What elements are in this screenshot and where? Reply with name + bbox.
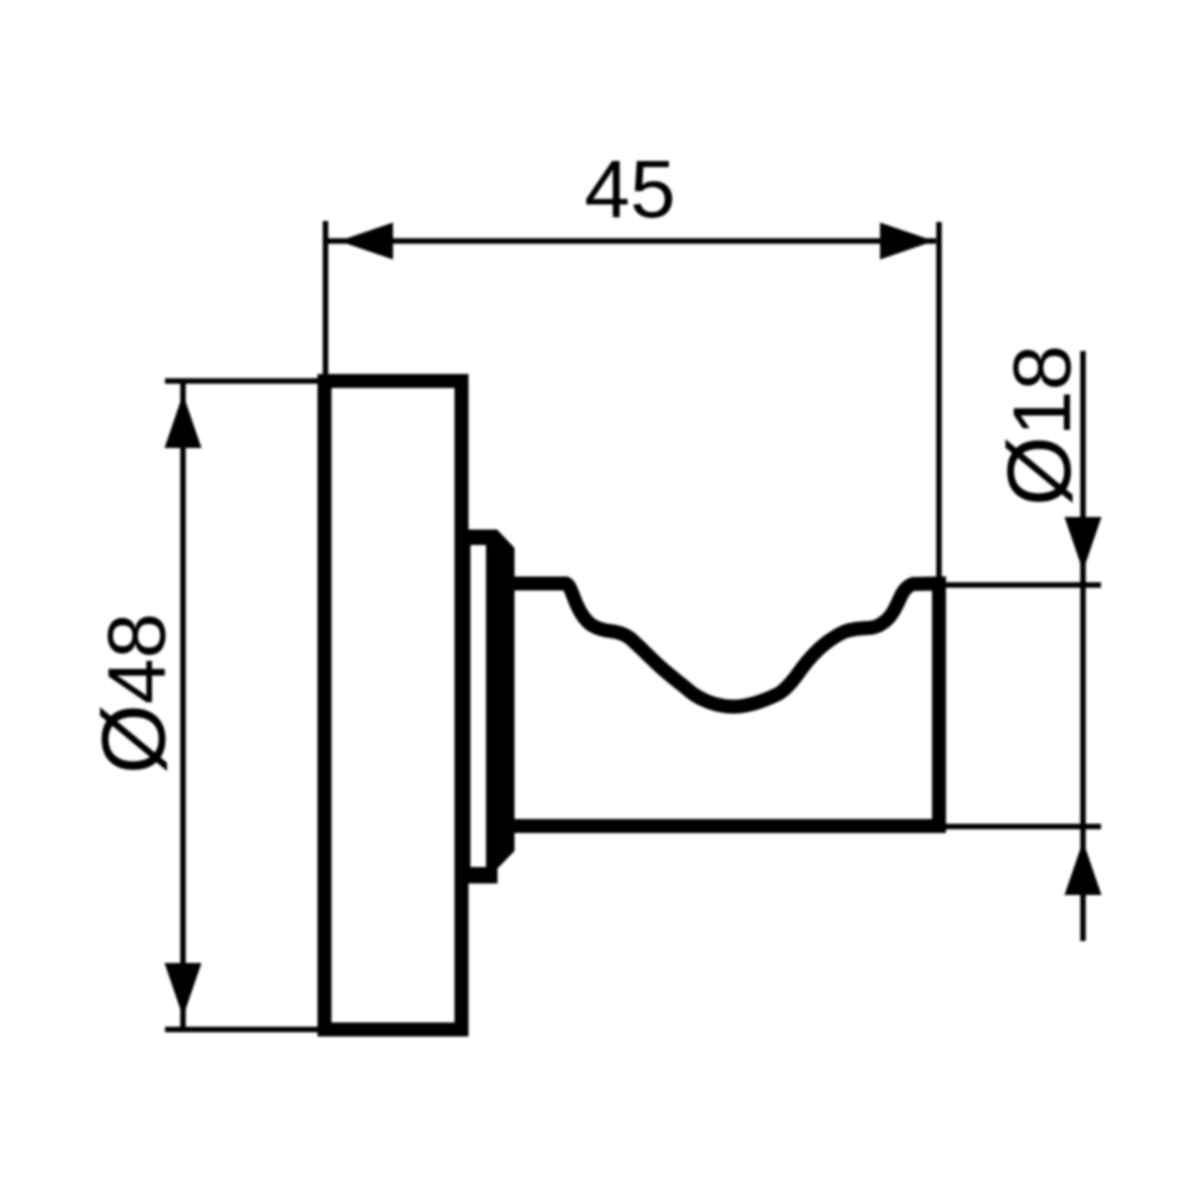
svg-text:45: 45 [584,144,675,235]
extension line top of D18 [945,582,1101,588]
hook arm outline with saddle profile [510,584,939,827]
arrow right of 45 [880,223,934,260]
svg-text:Ø18: Ø18 [990,345,1090,506]
arrow top of D48 [165,394,202,448]
extension line left of 45 [323,221,329,378]
wall plate (side view rectangle) [325,381,462,1030]
dimension line D18 (right) [1080,351,1086,941]
extension line bottom of D18 [946,824,1101,830]
dimension line D48 (left) [180,383,186,1029]
flange slot (white gap) [471,545,487,867]
extension line bottom of D48 [165,1027,320,1033]
extension line right of 45 [936,222,942,577]
arrow top of D18 [1065,517,1102,571]
arrow left of 45 [339,223,393,260]
extension line top of D48 [165,378,320,384]
arrow bottom of D48 [165,963,202,1017]
dimension line 45 (top) [328,238,936,244]
mounting flange (filled cross-section) [461,530,515,884]
arrow bottom of D18 [1065,841,1102,895]
svg-text:Ø48: Ø48 [85,613,185,774]
